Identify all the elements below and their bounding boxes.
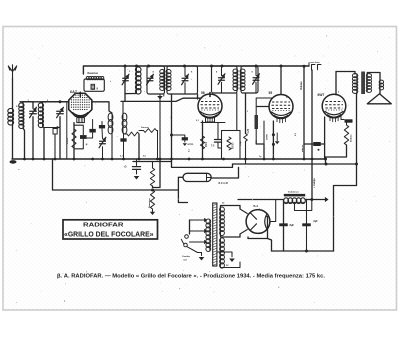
svg-text:«GRILLO DEL FOCOLARE»: «GRILLO DEL FOCOLARE» xyxy=(64,231,154,238)
tube V4 base xyxy=(325,112,343,115)
wire RC parallel branch xyxy=(74,125,83,135)
capacitor C4 with ground arrow xyxy=(136,159,138,166)
svg-text:attacco: attacco xyxy=(301,144,304,152)
wire L3 bottom to bus xyxy=(43,127,45,159)
wire secondary loop to voice coil xyxy=(367,73,380,81)
svg-text:6W7: 6W7 xyxy=(318,93,325,97)
coil L2 primary tuned winding xyxy=(19,103,24,107)
wire right drop to rectifier xyxy=(334,164,357,252)
wire LV bottom tail xyxy=(221,262,241,268)
coil T1 secondary xyxy=(166,70,171,74)
wire V1 cathode column xyxy=(73,123,75,159)
wire AVC horizontal xyxy=(53,189,179,191)
wire antenna lead-in xyxy=(12,78,14,109)
resistor R5 cathode xyxy=(200,136,204,149)
resistor R7 grid leak dark xyxy=(255,115,259,129)
IF transformer T2 secondary can xyxy=(241,66,258,93)
wire AVC drop xyxy=(52,159,54,190)
svg-text:B+2: B+2 xyxy=(254,205,259,208)
wire B+ jog segment xyxy=(133,162,233,168)
IF transformer T2 primary can xyxy=(212,66,238,93)
wire AVC link horizontal xyxy=(44,127,60,129)
wire V3 pin column xyxy=(263,121,265,144)
coil T1 primary xyxy=(160,70,165,74)
scan speckles xyxy=(131,70,134,73)
svg-text:Bobina: Bobina xyxy=(351,134,353,142)
wire T1 ground tail xyxy=(159,100,161,160)
wire grid branch down xyxy=(66,102,68,159)
primary tap arrows xyxy=(190,219,205,221)
coil L4 reaction winding xyxy=(86,77,89,80)
capacitor C3 black top small xyxy=(99,125,105,128)
svg-text:β. A. RADIOFAR. — Modello « Gr: β. A. RADIOFAR. — Modello « Grillo del F… xyxy=(57,274,325,280)
wire top HT bus xyxy=(83,66,309,74)
wire cap column 1 xyxy=(283,200,285,252)
antenna xyxy=(8,65,16,78)
capacitor C7 cathode bypass xyxy=(345,119,353,122)
wire CV1 down to bus xyxy=(32,117,34,159)
wire lamp right to B+ jog xyxy=(211,167,238,178)
node T1 top junction xyxy=(147,65,150,68)
IF transformer T1 secondary can xyxy=(167,66,198,94)
trimmer T1 primary xyxy=(147,77,153,79)
wire oscillator vertical xyxy=(124,66,126,102)
wire choke input line xyxy=(238,199,284,201)
trimmer oscillator xyxy=(123,77,129,79)
resistor R8 cathode xyxy=(344,125,348,145)
svg-text:Zamma: Zamma xyxy=(141,127,149,129)
wire V4 cathode jog xyxy=(341,115,344,120)
tube V3 base xyxy=(272,112,291,115)
wire V3 grid cap stub xyxy=(257,106,269,108)
coil T2 secondary xyxy=(240,69,245,73)
wire T3 primary bottom down xyxy=(356,93,358,164)
padder unit box xyxy=(84,79,104,91)
coil detector small xyxy=(244,134,248,142)
ground arrow below T1 xyxy=(159,94,161,96)
wire center tap to ground xyxy=(217,252,232,257)
wire rectifier anode stubs xyxy=(240,209,247,214)
svg-text:Volume: Volume xyxy=(300,81,303,90)
filter choke L8 xyxy=(284,194,305,197)
trimmer padder under V1 xyxy=(100,140,106,142)
svg-text:linduttanza: linduttanza xyxy=(288,191,299,194)
output transformer T3 primary xyxy=(352,74,357,78)
coil L3 secondary tuned winding xyxy=(38,103,43,108)
svg-text:al 1°: al 1° xyxy=(171,116,173,120)
trimmer T1 secondary xyxy=(182,77,188,79)
coil L6b oscillator pickup xyxy=(122,113,127,121)
node T2 primary top xyxy=(210,65,213,68)
tube V1 top tick xyxy=(79,92,81,96)
coil L6a oscillator pickup xyxy=(108,113,113,121)
nameplate box RADIOFAR xyxy=(63,220,158,239)
wire coupling line xyxy=(304,143,313,145)
svg-text:R.C in B: R.C in B xyxy=(219,182,229,185)
wire T1 tail down xyxy=(171,94,173,162)
tube V2 envelope xyxy=(198,94,222,118)
T4 HV secondary winding xyxy=(220,207,225,212)
arrow pickup terminal xyxy=(152,209,154,212)
resistor R2 horizontal squiggle xyxy=(127,132,139,136)
ballast lamp xyxy=(183,173,211,181)
wire rectifier output xyxy=(270,200,276,222)
wire L3 top to grid line xyxy=(43,102,69,104)
node chassis bus junctions xyxy=(23,158,26,161)
resistor R6 screen xyxy=(227,137,231,150)
svg-text:presa fono: presa fono xyxy=(309,62,321,64)
svg-text:8µF: 8µF xyxy=(314,220,319,223)
svg-text:0.25: 0.25 xyxy=(248,128,250,133)
svg-text:al ric.: al ric. xyxy=(188,143,195,146)
switch mains voltage selector xyxy=(185,235,189,239)
filter capacitor C8 xyxy=(279,223,288,226)
wire cap column 2 xyxy=(306,200,308,252)
capacitor C2 black base xyxy=(92,120,94,129)
wire tap column xyxy=(189,220,191,234)
variable capacitor CV1 tuning xyxy=(30,110,37,112)
wire B+ return bus xyxy=(233,163,357,165)
capacitor C5 xyxy=(215,139,222,141)
output transformer T3 secondary xyxy=(366,74,371,78)
svg-text:+ campo: + campo xyxy=(313,178,316,188)
wire V4 cathode return stub xyxy=(326,145,347,164)
trimmer T2 primary xyxy=(219,77,225,79)
svg-text:Dinamica: Dinamica xyxy=(149,197,151,208)
wire main chassis bus xyxy=(12,158,326,160)
wire detector column down xyxy=(245,141,247,164)
trimmer pad box xyxy=(53,129,57,135)
capacitor C6 black coupling xyxy=(313,142,321,146)
wire L6b top xyxy=(122,101,124,114)
node oscillator coil top xyxy=(135,65,138,68)
wire volume line xyxy=(303,67,305,159)
wire HV bottom to rectifier xyxy=(221,234,241,237)
node T1 secondary top xyxy=(183,65,186,68)
filter capacitor C9 xyxy=(302,223,311,226)
mains plug arrow xyxy=(201,253,203,256)
wire T2 tail to diode xyxy=(245,93,247,134)
voice coil xyxy=(379,80,383,84)
T4 primary winding xyxy=(206,219,211,224)
wire CV2 down xyxy=(59,117,61,159)
wire pad to bus xyxy=(54,134,56,159)
resistor R4 bleeder xyxy=(150,168,154,186)
svg-text:50000: 50000 xyxy=(267,133,269,140)
wire L2 bottom to bus xyxy=(23,128,25,159)
wire al ric branch xyxy=(172,135,185,137)
wire grid line right segment xyxy=(121,98,201,101)
resistor R3 horizontal squiggle xyxy=(144,129,157,133)
node oscillator top junction xyxy=(124,65,127,68)
resistor R1 cathode bias xyxy=(72,129,76,148)
wire V3 volume column xyxy=(272,121,274,159)
wire choke output xyxy=(305,199,325,201)
coil L1 antenna coil xyxy=(8,108,14,113)
node T2 secondary top xyxy=(255,65,258,68)
capacitor padder inside box xyxy=(91,84,95,89)
node grid-line junction xyxy=(59,100,62,103)
svg-text:RADIOFAR: RADIOFAR xyxy=(83,223,125,229)
capacitor antenna-mains black xyxy=(182,137,188,140)
wire bottom return bus xyxy=(272,250,334,252)
wire rectifier cathode loop xyxy=(248,217,268,239)
wire screen loop box xyxy=(218,146,222,149)
arrow potentiometer wiper xyxy=(276,133,278,141)
tube V5 rectifier envelope xyxy=(246,210,270,234)
svg-text:8µF: 8µF xyxy=(290,223,295,227)
wire switch to mains plug xyxy=(187,247,202,253)
wire V3 plate to top bus xyxy=(280,66,282,95)
trimmer T2 secondary xyxy=(253,77,259,79)
svg-text:0,1µF: 0,1µF xyxy=(240,140,242,146)
capacitor C4 black below L6b xyxy=(120,138,126,141)
T4 LV secondary winding xyxy=(220,238,225,243)
wire R4 jog to bus xyxy=(153,159,161,188)
tube V3 envelope xyxy=(269,95,293,119)
wire T1 to tube V2 grid xyxy=(197,94,199,99)
wire L2 top to tuning cap CV1 xyxy=(23,102,33,109)
svg-text:1500: 1500 xyxy=(206,141,208,147)
svg-text:55: 55 xyxy=(269,91,273,95)
speaker cone xyxy=(367,94,391,104)
wire hum loop under choke xyxy=(295,200,312,211)
wire L1 bottom to chassis bus xyxy=(12,125,14,160)
ground arrow below T4 xyxy=(229,259,235,263)
coil L7 hum adjust xyxy=(150,190,154,209)
wire T1 coil tail xyxy=(163,94,165,96)
tube V1 6A7 envelope xyxy=(69,93,92,116)
tube V2 top tick xyxy=(209,93,211,97)
wire grid line left segment xyxy=(20,102,112,113)
wire HV top to rectifier xyxy=(221,206,241,210)
capacitor C1 black cathode bypass xyxy=(80,135,87,139)
svg-text:Reazione: Reazione xyxy=(88,72,99,75)
output transformer T3 core xyxy=(361,72,365,95)
wire V4 grid column xyxy=(324,117,326,159)
wire V4 plate to output transformer xyxy=(336,72,355,95)
IF transformer T1 primary can xyxy=(147,66,165,94)
wire field supply line xyxy=(311,70,313,200)
wire V2 cathode column xyxy=(202,121,204,159)
tube V2 base xyxy=(200,112,220,115)
tube V4 envelope xyxy=(322,94,346,118)
coil L5 oscillator xyxy=(135,67,141,73)
wire L6a bottom to bus xyxy=(111,133,113,159)
svg-text:50000: 50000 xyxy=(233,142,235,149)
wire diode stub upper xyxy=(256,98,272,115)
svg-text:Cambio: Cambio xyxy=(182,256,191,258)
tube V1 base xyxy=(73,113,89,116)
svg-text:30000: 30000 xyxy=(67,137,69,144)
svg-text:56: 56 xyxy=(201,91,205,95)
coil T2 primary xyxy=(233,69,238,73)
phono input terminals xyxy=(309,64,321,71)
wire oscillator coil bottom xyxy=(125,93,137,95)
wire lamp left down xyxy=(178,177,187,202)
chassis blob left end xyxy=(10,160,17,164)
variable capacitor CV2 tuning xyxy=(57,110,64,112)
wire T2 primary tail xyxy=(236,93,238,131)
power transformer T4 core xyxy=(213,203,217,266)
